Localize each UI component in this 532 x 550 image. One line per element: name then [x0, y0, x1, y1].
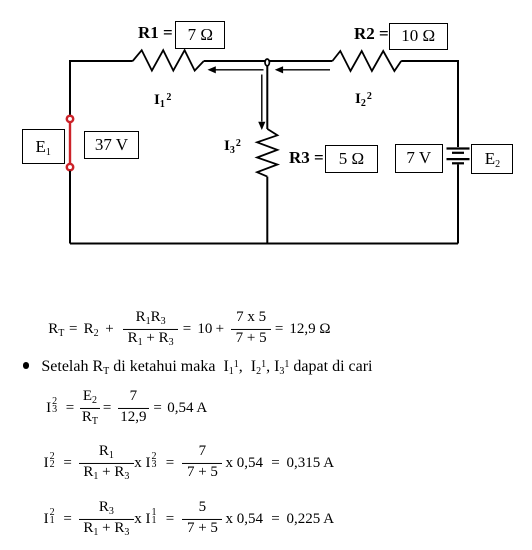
- node junction (small oval on top wire): [265, 59, 269, 66]
- current arrow I1 (pointing left): [208, 66, 264, 73]
- value box R2 10 ohm: [389, 23, 449, 50]
- resistor R1 (zigzag): [133, 50, 204, 70]
- wire: top-right horizontal segment: [401, 60, 458, 62]
- value box R1 7 ohm: [175, 21, 225, 49]
- equation I1: [44, 500, 334, 540]
- wire: right vertical lower segment: [457, 165, 459, 244]
- label box E1: [22, 129, 65, 164]
- value box 37 V: [84, 131, 139, 159]
- value box R3 5 ohm: [325, 145, 378, 173]
- voltage source E1 (red terminal bottom): [67, 164, 73, 170]
- label R2 =: [354, 25, 389, 42]
- wire: middle branch vertical upper segment: [266, 63, 268, 129]
- label box E2: [471, 144, 513, 175]
- current label I2^2: [355, 92, 372, 107]
- equation RT: [48, 309, 330, 349]
- current arrow I2 (pointing left): [275, 66, 330, 73]
- equation I2: [44, 444, 334, 484]
- label R1 =: [138, 24, 173, 41]
- wire: middle branch vertical lower segment: [266, 177, 268, 244]
- equation I3: [46, 388, 207, 428]
- bullet line: [23, 359, 373, 375]
- voltage source E1 (red terminal top): [67, 116, 73, 122]
- value box 7 V: [395, 144, 443, 173]
- resistor R3 (vertical zigzag): [257, 129, 277, 177]
- current label I3^2: [224, 139, 241, 154]
- wire: bottom horizontal segment: [70, 243, 458, 245]
- voltage source E1 (red element line): [69, 123, 71, 164]
- wire: left vertical lower segment: [69, 171, 71, 244]
- battery E2 (two-cell symbol): [447, 149, 470, 164]
- wire: right vertical upper segment: [457, 60, 459, 147]
- wire: top middle segment between R1 and R2: [204, 60, 333, 62]
- wire: left vertical upper segment: [69, 60, 71, 115]
- current label I1^2: [154, 93, 171, 108]
- label R3 =: [289, 149, 324, 166]
- current arrow I3 (pointing down): [258, 75, 265, 131]
- resistor R2 (zigzag): [332, 51, 401, 71]
- wire: top-left horizontal segment: [70, 60, 133, 62]
